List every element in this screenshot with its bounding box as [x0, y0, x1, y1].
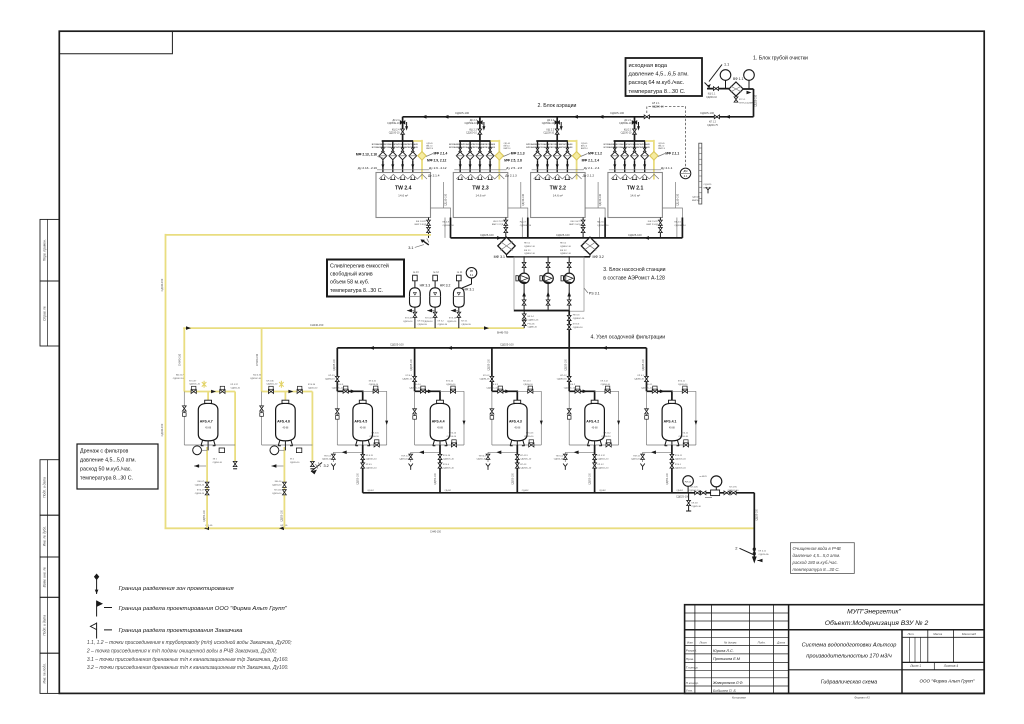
svg-text:СД150-100: СД150-100: [599, 193, 602, 206]
svg-text:ВМР 2.7СД: ВМР 2.7СД: [492, 224, 504, 226]
legend symbol: customer boundary: [97, 623, 112, 639]
svg-text:Ду 2.5...2.8: Ду 2.5...2.8: [506, 166, 522, 170]
info box: clean water to RChV: [791, 543, 855, 574]
svg-text:СД080С-16: СД080С-16: [560, 253, 572, 255]
svg-text:КШ 4.2: КШ 4.2: [568, 384, 576, 386]
svg-text:Дренаж с фильтров: Дренаж с фильтров: [80, 449, 129, 455]
svg-text:КЛ 4.12: КЛ 4.12: [603, 433, 611, 435]
svg-text:СД080С-16: СД080С-16: [524, 253, 536, 255]
svg-text:СД080С-10: СД080С-10: [486, 387, 498, 389]
pressure instrument DM 2.1: [680, 168, 691, 179]
svg-text:КЛ 4.11: КЛ 4.11: [681, 433, 689, 435]
svg-text:14,6 м³: 14,6 м³: [553, 194, 563, 198]
svg-text:СД050-10: СД050-10: [678, 384, 688, 386]
svg-text:СД050-10: СД050-10: [308, 387, 318, 389]
svg-text:№ 11: № 11: [457, 271, 463, 274]
svg-text:СД050-100: СД050-100: [435, 472, 437, 484]
svg-text:СД025-100: СД025-100: [700, 111, 715, 115]
strainer MF 3.1: [498, 237, 515, 254]
svg-text:СД050С-10: СД050С-10: [520, 467, 532, 469]
svg-text:КЛ 4.15: КЛ 4.15: [366, 455, 374, 457]
block4 drain header: [363, 492, 755, 494]
svg-text:КШ 4.6: КШ 4.6: [275, 481, 282, 483]
svg-text:3.2: 3.2: [324, 464, 329, 468]
svg-text:Разраб.: Разраб.: [686, 649, 697, 653]
svg-text:СД050-16: СД050-16: [403, 321, 413, 323]
header flow arrows: [422, 115, 427, 119]
svg-text:Очищенная вода в РЧВ: Очищенная вода в РЧВ: [793, 546, 841, 551]
svg-text:НК 3.4: НК 3.4: [528, 316, 535, 318]
svg-text:Взам. инв. №: Взам. инв. №: [42, 567, 46, 588]
svg-text:ВЛ19БК8ВПВЛ19БК8ВПВЛ19БК8ВПВЛ1: ВЛ19БК8ВПВЛ19БК8ВПВЛ19БК8ВПВЛ19БК8: [449, 147, 496, 149]
svg-text:КШ 4.7: КШ 4.7: [198, 481, 205, 483]
svg-text:температура 8...30 С.: температура 8...30 С.: [629, 89, 686, 95]
svg-text:СН040-150: СН040-150: [256, 353, 259, 366]
left margin attribute boxes group 1: [40, 219, 59, 281]
svg-text:2 – точка присоединения к: 2 – точка присоединения к т/п подачи очи…: [86, 647, 278, 654]
svg-text:КШ 2.6СП: КШ 2.6СП: [571, 221, 582, 223]
connection point 1.1: [709, 65, 722, 82]
svg-text:AFS.4.5: AFS.4.5: [354, 420, 367, 424]
info box: source water: [626, 58, 703, 96]
svg-text:СД050С-10: СД050С-10: [250, 378, 262, 380]
svg-text:1. Блок грубой очистки: 1. Блок грубой очистки: [753, 55, 808, 62]
svg-text:Лист 1: Лист 1: [909, 664, 921, 668]
svg-text:СД050С-10: СД050С-10: [689, 490, 701, 492]
svg-text:КЛ 4.13: КЛ 4.13: [526, 433, 534, 435]
svg-text:КЛ 4.3: КЛ 4.3: [520, 464, 527, 466]
connection point 3.1: [423, 241, 429, 245]
svg-text:СД050-1Б: СД050-1Б: [461, 324, 471, 326]
svg-text:Утв.: Утв.: [686, 689, 693, 693]
svg-text:ВЛ19БК8ВПВЛ19БК8ВПВЛ19БК8ВПВЛ1: ВЛ19БК8ВПВЛ19БК8ВПВЛ19БК8ВПВЛ19БК8: [449, 144, 496, 146]
connection point 2: [740, 548, 754, 554]
svg-text:Листов 4: Листов 4: [943, 664, 958, 668]
svg-text:СД025-100: СД025-100: [480, 233, 494, 237]
svg-text:Подп. и дата: Подп. и дата: [42, 615, 46, 636]
svg-text:Лист: Лист: [698, 640, 707, 644]
overflow vessel HR 3.3: [407, 275, 420, 328]
svg-text:СД080-16: СД080-16: [528, 327, 538, 329]
top-left stamp box: [59, 31, 172, 54]
svg-text:СД050Е-10: СД050Е-10: [542, 122, 555, 125]
svg-text:СД050С-10: СД050С-10: [598, 458, 610, 460]
svg-text:ВЛ19БК8ВПВЛ19БК8ВПВЛ19БК8ВПВЛ1: ВЛ19БК8ВПВЛ19БК8ВПВЛ19БК8ВПВЛ19БК8: [526, 147, 573, 149]
svg-text:Лит.: Лит.: [906, 632, 914, 636]
svg-text:ДМ: ДМ: [684, 169, 688, 173]
svg-text:Масса: Масса: [933, 632, 942, 636]
svg-text:КЛ 3.1Х: КЛ 3.1Х: [449, 318, 457, 320]
level gauge column: [699, 143, 702, 204]
svg-text:Ду 2.13...2.16: Ду 2.13...2.16: [358, 166, 377, 170]
svg-text:45-88: 45-88: [514, 428, 521, 430]
svg-text:РД 2.6: РД 2.6: [597, 222, 604, 224]
svg-text:PS 3.1: PS 3.1: [589, 292, 600, 296]
svg-text:СД150-100: СД150-100: [522, 193, 525, 206]
svg-text:СД050-100: СД050-100: [590, 472, 592, 484]
drain under strainer: [735, 96, 737, 103]
svg-text:3.1 – точки присоединения: 3.1 – точки присоединения дренажных т/п …: [87, 657, 289, 663]
svg-text:СД050-10: СД050-10: [290, 462, 300, 464]
svg-text:Объект:Модернизация ВЗУ № 2: Объект:Модернизация ВЗУ № 2: [825, 619, 929, 627]
svg-text:СД050-10: СД050-10: [369, 436, 379, 438]
svg-text:СД080С-10: СД080С-10: [332, 387, 344, 389]
svg-text:СД050-10: СД050-10: [679, 436, 689, 438]
svg-text:СД025-100: СД025-100: [676, 495, 690, 499]
svg-text:№ докум.: № докум.: [724, 640, 737, 644]
svg-text:СД080-16: СД080-16: [557, 378, 568, 380]
svg-text:СД050Е-10: СД050Е-10: [464, 122, 477, 125]
svg-text:НК 3.1: НК 3.1: [524, 243, 531, 245]
pipe to filter: [707, 88, 729, 90]
svg-text:ТКЛ 4.1: ТКЛ 4.1: [633, 455, 641, 457]
svg-text:КЛ 4.11: КЛ 4.11: [675, 455, 683, 457]
svg-text:КЛ 4.16: КЛ 4.16: [274, 490, 282, 492]
svg-text:НК 3.3: НК 3.3: [573, 315, 580, 317]
gauge MN 1.1: [720, 70, 731, 81]
svg-text:AFS.4.4: AFS.4.4: [432, 420, 445, 424]
svg-text:КШ 3.2: КШ 3.2: [560, 250, 567, 252]
yellow drain header middle: [183, 327, 524, 329]
strainer MF 3.2: [581, 237, 598, 254]
svg-text:СД100-10: СД100-10: [621, 132, 632, 135]
sediment filter unit AFS 4.4: [409, 348, 466, 493]
svg-text:СД-0Б2: СД-0Б2: [676, 490, 683, 492]
svg-text:СД-0Б2: СД-0Б2: [445, 490, 452, 492]
svg-text:СД050-10: СД050-10: [369, 384, 379, 386]
svg-text:СД050-10: СД050-10: [447, 436, 457, 438]
svg-text:СД050-100: СД050-100: [512, 472, 514, 484]
svg-text:КЛ 4.2: КЛ 4.2: [560, 375, 567, 377]
svg-text:температура 8...30 С.: температура 8...30 С.: [80, 476, 133, 482]
svg-text:расход 180 м.куб./час.: расход 180 м.куб./час.: [792, 560, 838, 565]
svg-text:КЛ 3.3: КЛ 3.3: [573, 324, 580, 326]
svg-text:КЛ 4.37: КЛ 4.37: [189, 380, 197, 382]
svg-text:СД020-1Б: СД020-1Б: [759, 554, 770, 556]
svg-text:МФ 2.1, 2.4: МФ 2.1, 2.4: [582, 159, 600, 163]
svg-text:объем 58 м.куб.: объем 58 м.куб.: [330, 280, 369, 286]
svg-text:СД100-10: СД100-10: [466, 132, 477, 135]
svg-text:СД080С-16: СД080С-16: [560, 246, 572, 248]
sediment filter unit AFS 4.3: [486, 348, 543, 493]
svg-text:СД050С-10: СД050С-10: [189, 384, 201, 386]
svg-text:производительностью 170 м3/ч: производительностью 170 м3/ч: [806, 653, 892, 659]
svg-text:Бобылев П. Б: Бобылев П. Б: [713, 689, 737, 693]
svg-text:КЛ 3.3Х: КЛ 3.3Х: [405, 318, 413, 320]
svg-text:ВЛ19БК8ВПВЛ19БК8ВПВЛ19БК8ВПВЛ1: ВЛ19БК8ВПВЛ19БК8ВПВЛ19БК8ВПВЛ19БК8: [372, 147, 419, 149]
svg-text:ТКЛ 4.5: ТКЛ 4.5: [324, 455, 332, 457]
svg-text:КЛ 4.1: КЛ 4.1: [638, 375, 645, 377]
svg-text:СН040-150: СН040-150: [179, 353, 182, 366]
svg-text:45-88: 45-88: [205, 428, 212, 430]
svg-text:Жаворонков Л.Ф.: Жаворонков Л.Ф.: [712, 681, 744, 685]
svg-text:ВМР2.0: ВМР2.0: [426, 148, 433, 150]
svg-text:ВМР5Д: ВМР5Д: [692, 200, 700, 202]
svg-text:AFS.4.7: AFS.4.7: [200, 420, 213, 424]
svg-text:СД025-100: СД025-100: [500, 343, 514, 347]
svg-text:КЛ 4.14: КЛ 4.14: [443, 455, 451, 457]
svg-text:45-88: 45-88: [282, 428, 289, 430]
legend symbol: zone boundary: [96, 576, 98, 594]
svg-text:Граница раздела проектирования: Граница раздела проектирования Заказчика: [119, 628, 244, 634]
svg-text:КЛ 4.7Б: КЛ 4.7Б: [729, 487, 737, 489]
svg-text:ВМР 2.6СД: ВМР 2.6СД: [569, 224, 581, 226]
svg-text:СД100-10: СД100-10: [389, 132, 400, 135]
svg-text:3.1: 3.1: [408, 246, 413, 250]
svg-text:СД050-10: СД050-10: [213, 462, 223, 464]
svg-text:МФ 2.13, 2.16: МФ 2.13, 2.16: [356, 153, 377, 157]
svg-text:14,6 м³: 14,6 м³: [475, 194, 485, 198]
svg-text:СД050С-10: СД050С-10: [443, 458, 455, 460]
svg-text:КЛ 4.37: КЛ 4.37: [231, 384, 239, 386]
svg-text:СД050-100: СД050-100: [358, 472, 360, 484]
svg-text:СН40-150: СН40-150: [430, 531, 442, 534]
svg-text:Ду 2.1.2: Ду 2.1.2: [583, 174, 595, 178]
svg-text:Н.контр.: Н.контр.: [686, 681, 699, 685]
svg-text:СД050-100: СД050-100: [667, 472, 669, 484]
svg-text:HR 3.1: HR 3.1: [464, 287, 475, 291]
svg-text:КЛ 4.13: КЛ 4.13: [520, 455, 528, 457]
svg-text:МФ 2.1.1: МФ 2.1.1: [665, 152, 679, 156]
svg-text:СД025-100: СД025-100: [610, 111, 625, 115]
svg-text:РД 2.8: РД 2.8: [443, 222, 450, 224]
svg-text:МУП"Энергетик": МУП"Энергетик": [847, 609, 901, 616]
svg-text:СД200Е-10: СД200Е-10: [443, 225, 455, 227]
svg-text:температура 8...30 С.: температура 8...30 С.: [793, 567, 840, 572]
svg-text:1.1, 1.2 – точки присоедин: 1.1, 1.2 – точки присоединения к трубопр…: [87, 639, 293, 646]
svg-text:КЛ 3.1: КЛ 3.1: [461, 321, 468, 323]
svg-text:СД050-1Б: СД050-1Б: [417, 324, 427, 326]
svg-text:СД-0Б2: СД-0Б2: [599, 490, 606, 492]
svg-text:СД1025: СД1025: [692, 197, 701, 199]
svg-text:Система водоподготовки Альтсор: Система водоподготовки Альтсор: [802, 642, 897, 648]
info box: overflow: [327, 260, 404, 297]
svg-text:СД200Е-10: СД200Е-10: [597, 225, 609, 227]
svg-text:СД050-10: СД050-10: [476, 459, 486, 461]
svg-text:СД080-16: СД080-16: [402, 378, 413, 380]
svg-text:КЛ 3.2: КЛ 3.2: [438, 321, 445, 323]
svg-text:СД080С-16: СД080С-16: [524, 246, 536, 248]
svg-text:СД200-10: СД200-10: [652, 104, 664, 108]
svg-text:СД-0Б2: СД-0Б2: [367, 490, 374, 492]
svg-text:СД080С-10: СД080С-10: [564, 387, 576, 389]
svg-text:ТКЛ 4.2: ТКЛ 4.2: [556, 455, 564, 457]
sediment filter unit AFS 4.2: [563, 348, 620, 493]
svg-text:СД050Е-10: СД050Е-10: [387, 122, 400, 125]
svg-text:45-88: 45-88: [592, 428, 599, 430]
valve KL 1.2: [714, 115, 719, 119]
svg-text:СД080-16: СД080-16: [634, 378, 645, 380]
svg-text:ВЛ19БК8ВПВЛ19БК8ВПВЛ19БК8ВПВЛ1: ВЛ19БК8ВПВЛ19БК8ВПВЛ19БК8ВПВЛ19БК8: [526, 144, 573, 146]
svg-text:расход 50 м.куб./час.: расход 50 м.куб./час.: [80, 467, 132, 473]
svg-text:СД050-10: СД050-10: [601, 384, 611, 386]
svg-text:КЛ 4.8: КЛ 4.8: [692, 503, 699, 505]
svg-text:СН040-150: СН040-150: [310, 323, 324, 327]
svg-text:ВЛ19БК8ВПВЛ19БК8ВПВЛ19БК8ВПВЛ1: ВЛ19БК8ВПВЛ19БК8ВПВЛ19БК8ВПВЛ19БК8: [604, 147, 651, 149]
svg-text:СД050С-10: СД050С-10: [266, 384, 278, 386]
aeration tank group TW 2.4: [376, 117, 451, 238]
svg-text:1.1: 1.1: [724, 63, 729, 67]
svg-text:СД080С-16: СД080С-16: [573, 318, 585, 320]
svg-text:СД050-10: СД050-10: [524, 436, 534, 438]
svg-text:КЛ 4.13: КЛ 4.13: [523, 381, 531, 383]
svg-text:Ду 2.1.1: Ду 2.1.1: [661, 166, 673, 170]
svg-text:КЛ 1.1: КЛ 1.1: [739, 99, 746, 101]
svg-text:КШ 2.7СП: КШ 2.7СП: [493, 221, 504, 223]
svg-text:Пров.: Пров.: [686, 657, 694, 661]
svg-text:СД025-100: СД025-100: [411, 358, 413, 370]
svg-text:РУ2-1Б: РУ2-1Б: [528, 323, 536, 325]
svg-text:СД025-100: СД025-100: [488, 358, 490, 370]
svg-text:2: 2: [735, 546, 738, 551]
svg-text:45-88: 45-88: [437, 428, 444, 430]
outlet gauge RI 4.2: [711, 476, 722, 487]
svg-text:СД080С-10: СД080С-10: [409, 387, 421, 389]
svg-text:КЛ 4.4: КЛ 4.4: [406, 375, 413, 377]
svg-text:Перв. примен.: Перв. примен.: [42, 239, 46, 261]
svg-text:КШ 4.17: КШ 4.17: [176, 375, 185, 377]
svg-text:СД200Е-10: СД200Е-10: [520, 225, 532, 227]
svg-text:ВЛ19БК8ВПВЛ19БК8ВПВЛ19БК8ВПВЛ1: ВЛ19БК8ВПВЛ19БК8ВПВЛ19БК8ВПВЛ19БК8: [372, 144, 419, 146]
svg-text:КЛ 4.15: КЛ 4.15: [369, 381, 377, 383]
svg-text:СД080-16: СД080-16: [479, 378, 490, 380]
svg-text:Пронькина Е.М: Пронькина Е.М: [713, 657, 741, 661]
svg-text:СД050С-10: СД050С-10: [520, 458, 532, 460]
svg-text:ТКЛ 4.4: ТКЛ 4.4: [401, 455, 409, 457]
gauge RI 3.1: [466, 268, 477, 279]
svg-text:AFS.4.1: AFS.4.1: [664, 420, 677, 424]
svg-text:КШ 3.1: КШ 3.1: [524, 250, 531, 252]
svg-text:ВМР 2.8СД: ВМР 2.8СД: [415, 224, 427, 226]
svg-text:СД050-100: СД050-100: [281, 509, 283, 521]
svg-text:ВМР2.0: ВМР2.0: [504, 148, 511, 150]
svg-text:СД040-150: СД040-150: [161, 278, 164, 291]
svg-text:ТКЛ 4.3: ТКЛ 4.3: [478, 455, 486, 457]
svg-text:КЛ 3.2Х: КЛ 3.2Х: [425, 318, 433, 320]
valve KL 2.1 with impulse line: [644, 115, 649, 119]
yellow drain header upper: [166, 234, 432, 236]
svg-text:СД-0Б2: СД-0Б2: [522, 490, 529, 492]
svg-text:Подп.: Подп.: [758, 640, 766, 644]
svg-text:Юрина Л.С.: Юрина Л.С.: [713, 649, 734, 653]
svg-text:СД050-10: СД050-10: [631, 459, 641, 461]
outlet valves: [695, 491, 700, 495]
svg-text:СД200Е-10: СД200Е-10: [674, 225, 686, 227]
yellow left riser: [165, 234, 167, 528]
svg-text:Граница раздела проектирования: Граница раздела проектирования ООО "Фирм…: [119, 606, 288, 612]
svg-text:КЛ 4.1: КЛ 4.1: [675, 464, 682, 466]
svg-text:Копировал: Копировал: [732, 696, 746, 700]
svg-text:ВН4Б-7Б0: ВН4Б-7Б0: [497, 332, 509, 335]
svg-text:СД025-100: СД025-100: [455, 111, 470, 115]
pump station drain: [523, 311, 525, 329]
svg-text:СД050-10: СД050-10: [322, 459, 332, 461]
svg-text:СД050-10: СД050-10: [554, 459, 564, 461]
svg-text:ВМР 2.5СД: ВМР 2.5СД: [646, 224, 658, 226]
svg-text:Дата: Дата: [776, 640, 785, 644]
svg-text:Гидравлическая схема: Гидравлическая схема: [821, 679, 878, 685]
svg-text:ЗК 1: ЗК 1: [290, 459, 295, 461]
svg-text:ВЛ19БК8ВПВЛ19БК8ВПВЛ19БК8ВПВЛ1: ВЛ19БК8ВПВЛ19БК8ВПВЛ19БК8ВПВЛ19БК8: [604, 144, 651, 146]
svg-text:СД050-10: СД050-10: [195, 484, 205, 486]
sediment filter unit AFS 4.1: [640, 348, 697, 493]
block4 feed header: [337, 347, 646, 349]
svg-text:СД025-100: СД025-100: [757, 508, 759, 520]
valve KSh 1.1: [713, 87, 718, 91]
svg-text:14,6 м³: 14,6 м³: [398, 194, 408, 198]
svg-text:AFS.4.2: AFS.4.2: [586, 420, 599, 424]
svg-text:СД050С-10: СД050С-10: [728, 490, 740, 492]
svg-text:СД040-150: СД040-150: [161, 423, 164, 436]
svg-text:СД025-100: СД025-100: [643, 358, 645, 370]
svg-text:СД050-10: СД050-10: [195, 493, 205, 495]
svg-text:СД025-100: СД025-100: [628, 233, 642, 237]
svg-text:Т.контр.: Т.контр.: [686, 665, 699, 669]
aeration tank group TW 2.2: [531, 117, 606, 238]
svg-text:HR 3.2: HR 3.2: [440, 284, 451, 288]
svg-text:HR 3.3: HR 3.3: [420, 284, 431, 288]
svg-text:КЛ 4.36: КЛ 4.36: [266, 380, 274, 382]
svg-text:45-88: 45-88: [360, 428, 367, 430]
svg-text:СД050-10: СД050-10: [601, 436, 611, 438]
svg-text:СД050-10: СД050-10: [272, 484, 282, 486]
svg-text:МФ 2.1.3: МФ 2.1.3: [511, 152, 525, 156]
svg-text:Подп. и дата: Подп. и дата: [42, 477, 46, 498]
svg-text:МФ 2.1.2: МФ 2.1.2: [588, 152, 602, 156]
svg-text:КЛ 4.17: КЛ 4.17: [197, 490, 205, 492]
svg-text:Ду 2.1...2.4: Ду 2.1...2.4: [584, 166, 600, 170]
svg-text:в составе АЭРомст А-128: в составе АЭРомст А-128: [603, 276, 665, 282]
svg-text:3. Блок насосной станции: 3. Блок насосной станции: [603, 266, 665, 273]
title block: [685, 605, 985, 694]
svg-text:КШ 4.3: КШ 4.3: [491, 384, 499, 386]
pumps N 3.1-3.3: [523, 257, 525, 311]
svg-text:МФ 2.9, 2.12: МФ 2.9, 2.12: [427, 159, 446, 163]
svg-text:СД050С-10: СД050С-10: [366, 458, 378, 460]
sample branch: [688, 493, 690, 511]
svg-text:TW 2.2: TW 2.2: [550, 186, 567, 192]
svg-text:СД050-10: СД050-10: [272, 493, 282, 495]
svg-text:температура 8...30 С.: температура 8...30 С.: [330, 288, 383, 294]
svg-text:МФ 3.1: МФ 3.1: [494, 255, 505, 259]
pump discharge manifold: [514, 310, 569, 312]
svg-text:пз 4Б70: пз 4Б70: [699, 476, 707, 478]
svg-text:КЛ 4.14: КЛ 4.14: [449, 433, 457, 435]
svg-text:КЛ 4.5: КЛ 4.5: [328, 375, 335, 377]
svg-text:СД1025: СД1025: [704, 184, 713, 186]
svg-text:КШ 4.5: КШ 4.5: [336, 384, 344, 386]
svg-text:ВМР2.0: ВМР2.0: [581, 148, 588, 150]
svg-text:КШ 2.5СП: КШ 2.5СП: [648, 221, 659, 223]
svg-text:Слив/перелив емкостей: Слив/перелив емкостей: [330, 263, 389, 270]
svg-text:РИ: РИ: [470, 270, 474, 273]
svg-text:СД050С-10: СД050С-10: [675, 467, 687, 469]
aeration tank group TW 2.3: [453, 117, 528, 238]
overflow vessel HR 3.1: [451, 275, 464, 328]
legend symbol: firm boundary: [97, 601, 112, 617]
svg-text:СД025-10: СД025-10: [692, 506, 702, 508]
svg-text:КЛ 4.4: КЛ 4.4: [443, 464, 450, 466]
svg-text:МФ 2.1.4: МФ 2.1.4: [434, 152, 448, 156]
svg-text:СД080С-16: СД080С-16: [528, 319, 540, 321]
svg-text:Формат А3: Формат А3: [854, 696, 870, 700]
outlet gauge RI 4.1: [683, 476, 694, 487]
svg-text:СД025-100: СД025-100: [566, 358, 568, 370]
svg-text:СД050-10: СД050-10: [231, 387, 241, 389]
svg-text:ВМР2.0: ВМР2.0: [658, 148, 665, 150]
svg-text:AFS.4.6: AFS.4.6: [277, 420, 290, 424]
svg-text:КШ 4.16: КШ 4.16: [253, 375, 262, 377]
